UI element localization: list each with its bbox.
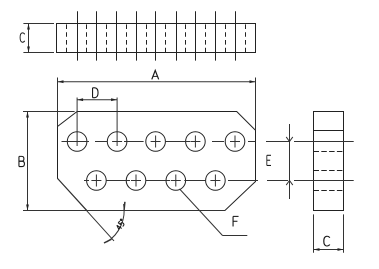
label D: [93, 88, 99, 98]
label B: [19, 156, 25, 166]
hole column centerline 7 (top view): [195, 11, 197, 60]
hidden hole edge line 4 (top view): [126, 24, 128, 52]
label A: [152, 70, 159, 79]
hole column centerline 2 (top view): [96, 11, 98, 60]
label C (side view): [324, 236, 330, 246]
hidden hole edge line 10 (top view): [245, 24, 247, 52]
front view: bottom row holes (4): [87, 171, 226, 191]
hole T1 (top row): [67, 132, 87, 152]
dimension C (side view width): extension lines and dim line: [314, 214, 344, 252]
hole T4 (top row): [186, 132, 206, 152]
hidden hole edge line 3 (top view): [106, 24, 108, 52]
hidden hole edge line 9 (top view): [225, 24, 227, 52]
hole B3 (bottom row): [166, 171, 186, 191]
arc arrowhead slashes: [123, 202, 126, 210]
hidden hole edge line 1 (top view): [66, 24, 68, 52]
label F: [233, 216, 238, 226]
side view: hidden hole edges (dashed): [314, 152, 344, 191]
label E: [267, 155, 271, 165]
hole T5 (top row): [225, 132, 245, 152]
dimension E arrowheads: [286, 137, 293, 185]
front view: top row holes (5): [67, 132, 245, 152]
hole column centerline 8 (top view): [215, 11, 217, 60]
dimension C arrowheads (side view): [314, 248, 344, 251]
side view: row centerlines (extend past box): [308, 142, 354, 181]
dimension C line: [28, 24, 30, 53]
dimension D line: [77, 99, 117, 101]
hidden hole edge line 6 (top view): [165, 24, 167, 52]
angle dimension arc: [107, 204, 124, 242]
hole column centerline 5 (top view): [155, 11, 157, 60]
dimension C (plate thickness, top view): extension lines: [23, 24, 54, 53]
hole B1 (bottom row): [87, 171, 107, 191]
side view: chamfer projection line: [314, 130, 344, 132]
side view: outline: [314, 112, 344, 211]
vertical centerline ticks in holes: [77, 98, 235, 187]
front view: plate outline with 4 chamfered corners: [58, 112, 256, 211]
hole B4 (bottom row): [206, 171, 226, 191]
top view: 9 hole centerlines (vertical): [78, 11, 236, 60]
45 deg chamfer dimension: extended chamfer line: [58, 178, 125, 243]
hidden hole edge line 5 (top view): [146, 24, 148, 52]
hole T3 (top row): [146, 132, 166, 152]
leader line to F: [180, 189, 248, 236]
top row centerline dashes: [62, 141, 310, 143]
top view: hidden hole edges (10 dashed verticals): [67, 24, 246, 52]
hole column centerline 9 (top view): [235, 11, 237, 60]
dimension D arrowheads: [77, 98, 117, 101]
label 45 degrees (rotated): [116, 219, 126, 230]
dimension C arrowheads: [27, 24, 30, 53]
dimension B arrowheads: [26, 112, 29, 211]
hole T2 (top row): [107, 132, 127, 152]
dimension B: extension lines and dim line: [23, 112, 225, 211]
hole column centerline 4 (top view): [136, 11, 138, 60]
dimension E line: [289, 124, 291, 199]
hidden hole edge line 2 (top view): [86, 24, 88, 52]
hole column centerline 3 (top view): [116, 11, 118, 60]
bottom row centerline dashes: [84, 180, 308, 182]
top view: plate plan (strip) outline: [57, 24, 256, 53]
hole column centerline 6 (top view): [176, 11, 178, 60]
dimension A arrowheads: [58, 80, 256, 83]
hole column centerline 1 (top view): [77, 11, 79, 60]
label C (top view): [20, 33, 25, 42]
dimension A: extension lines and dim line: [58, 78, 256, 131]
hidden hole edge line 8 (top view): [205, 24, 207, 52]
hole B2 (bottom row): [126, 171, 146, 191]
hidden hole edge line 7 (top view): [185, 24, 187, 52]
